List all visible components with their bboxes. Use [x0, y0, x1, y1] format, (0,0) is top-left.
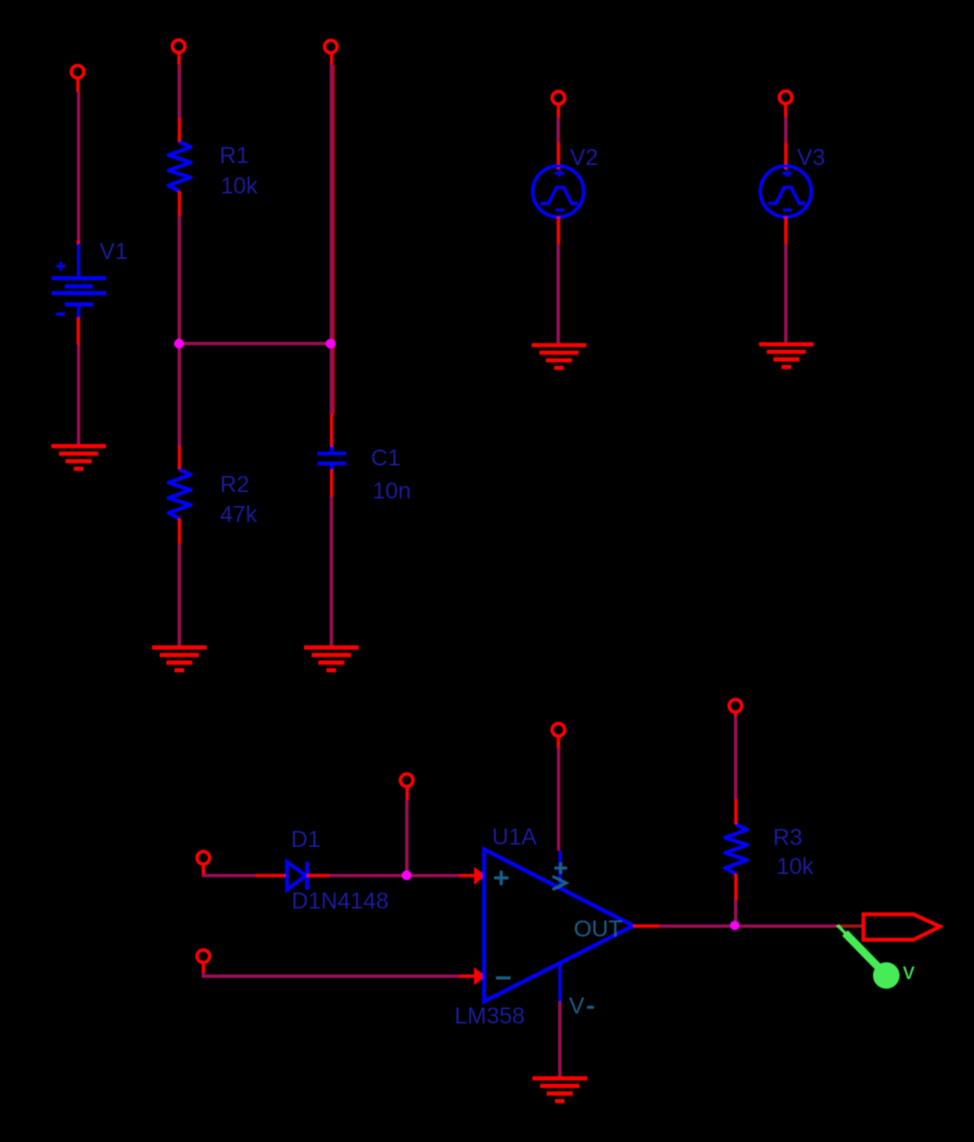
svg-text:OUT: OUT	[574, 915, 623, 941]
svg-text:LM358: LM358	[455, 1002, 525, 1028]
wire	[330, 874, 459, 877]
pin U1A OUT	[633, 924, 659, 927]
svg-text:v: v	[903, 958, 915, 984]
wire corner	[203, 973, 458, 976]
node VIN2 terminal port	[172, 40, 185, 53]
pin V3 plus	[784, 142, 787, 169]
pin R2.1	[178, 446, 181, 470]
wire	[330, 497, 333, 646]
op-amp U1A	[484, 849, 633, 1001]
svg-text:10k: 10k	[221, 173, 259, 199]
svg-text:V1: V1	[100, 238, 128, 264]
pin D1 cathode	[307, 874, 330, 877]
ground	[51, 446, 106, 469]
resistor R2	[169, 470, 191, 519]
pin stub	[77, 241, 80, 246]
wire	[178, 544, 181, 646]
wire	[330, 65, 333, 414]
wire node A horizontal	[179, 342, 331, 345]
resistor R3	[725, 825, 747, 874]
pin label plus	[494, 871, 509, 885]
pin V3 minus	[784, 217, 787, 244]
pin	[330, 54, 333, 65]
pin C1.1	[330, 414, 333, 447]
pin U1A V+	[558, 851, 561, 890]
junction node A	[174, 339, 184, 349]
wire	[734, 900, 737, 921]
node IN2 terminal port	[197, 950, 210, 963]
probe marker green	[838, 925, 900, 989]
wire	[557, 244, 560, 343]
pin D1 anode	[256, 874, 287, 877]
svg-text:R2: R2	[220, 471, 249, 497]
wire	[178, 345, 181, 446]
svg-text:V3: V3	[797, 144, 825, 170]
node VD terminal port	[400, 774, 413, 787]
wire	[784, 244, 787, 342]
node V2 terminal port	[552, 92, 565, 105]
ground	[532, 1078, 587, 1101]
pin	[557, 737, 560, 749]
pin R3.1	[734, 799, 737, 825]
pin	[202, 963, 205, 973]
node V3 terminal port	[779, 91, 792, 104]
pin U1A plus input arrow	[459, 874, 475, 877]
svg-text:D1: D1	[291, 826, 320, 852]
pin C1.2	[330, 470, 333, 497]
pin	[202, 865, 205, 875]
pin	[557, 105, 560, 118]
svg-text:47k: 47k	[220, 501, 258, 527]
wire	[178, 65, 181, 117]
capacitor C1	[317, 447, 346, 470]
pin R1.2	[178, 191, 181, 215]
svg-text:U1A: U1A	[492, 823, 537, 849]
ground	[759, 344, 814, 367]
battery V1	[52, 244, 106, 318]
node R3 terminal port	[729, 700, 742, 713]
pin label minus	[496, 976, 511, 979]
junction node B	[326, 339, 336, 349]
node VIN1 terminal port	[71, 65, 84, 78]
wire	[557, 748, 560, 851]
wire	[77, 92, 80, 242]
wire	[734, 716, 737, 799]
node V+ terminal port	[552, 724, 565, 737]
wire	[784, 117, 787, 142]
junction node C	[402, 870, 412, 880]
pin R1.1	[178, 117, 181, 142]
pin U1A minus input arrow	[459, 975, 475, 978]
svg-text:C1: C1	[371, 444, 400, 470]
resistor R1	[169, 142, 191, 191]
node VOUT terminal port	[325, 40, 338, 53]
pin	[406, 787, 409, 800]
wire	[557, 118, 560, 143]
probe outline	[863, 914, 940, 939]
wire	[405, 800, 408, 873]
pin	[784, 104, 787, 117]
pin label V+ rotated	[553, 862, 568, 889]
svg-text:10k: 10k	[777, 853, 815, 879]
node IN1 terminal port	[197, 852, 210, 865]
svg-text:D1N4148: D1N4148	[292, 888, 389, 914]
diode D1	[287, 862, 307, 890]
wire corner	[203, 873, 255, 877]
junction node OUT	[730, 921, 739, 930]
pin R3.2	[734, 874, 737, 900]
wire	[558, 1002, 561, 1077]
pin V2 minus	[557, 217, 560, 244]
pin C1.1 long red edge	[333, 65, 334, 415]
pin	[734, 713, 737, 716]
pin V1 minus	[77, 318, 80, 345]
source V2	[533, 166, 584, 217]
svg-text:V: V	[569, 992, 585, 1018]
wire output	[659, 924, 837, 927]
pin V1 plus	[76, 79, 79, 92]
pin	[177, 53, 180, 65]
svg-text:V2: V2	[570, 144, 598, 170]
ground	[304, 648, 359, 671]
svg-text:R3: R3	[773, 824, 802, 850]
wire	[178, 216, 181, 343]
ground	[532, 345, 587, 368]
pin probe dark red	[838, 924, 865, 927]
svg-text:10n: 10n	[373, 477, 411, 503]
pin R2.2	[178, 519, 181, 544]
svg-text:R1: R1	[220, 142, 249, 168]
wire	[77, 345, 80, 445]
ground	[152, 648, 207, 671]
pin V2 plus	[557, 142, 560, 169]
pin U1A V-	[558, 962, 561, 1001]
source V3	[760, 166, 811, 217]
